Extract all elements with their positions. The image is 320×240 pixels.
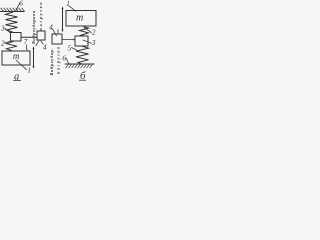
spring 7 (lower spring, left figure) xyxy=(7,41,18,51)
arrow box C to box E xyxy=(62,39,74,41)
mass m rectangle (right figure) xyxy=(66,11,96,27)
box B (striker box, left figure) xyxy=(37,31,45,40)
leader 2 xyxy=(5,41,11,43)
leader 6 xyxy=(66,58,69,64)
double arrow (left figure) xyxy=(33,49,35,67)
svg-text:4: 4 xyxy=(49,24,53,32)
leader 3 xyxy=(5,28,11,33)
svg-text:4: 4 xyxy=(43,44,47,52)
leader 5 xyxy=(72,48,77,51)
ground (right figure) xyxy=(65,63,94,65)
ceiling hatch xyxy=(1,8,25,11)
ground hatch xyxy=(66,64,93,68)
box A (left figure small box) xyxy=(11,33,22,42)
leader 4 (left figure) xyxy=(41,41,44,44)
svg-text:m: m xyxy=(13,51,20,61)
label 1 leader (right figure) xyxy=(69,6,76,12)
double arrow (right figure) xyxy=(62,8,64,30)
spring 5 (lower spring, right figure) xyxy=(76,46,89,64)
impact arrow from box B xyxy=(36,41,39,46)
leader 3 (right figure) xyxy=(83,40,92,43)
leader 2 (right figure) xyxy=(84,28,92,33)
wire box A to box B xyxy=(21,36,37,38)
svg-text:6: 6 xyxy=(19,0,23,7)
svg-text:7: 7 xyxy=(24,38,28,46)
svg-text:Виброудар.: Виброудар. xyxy=(49,49,54,77)
svg-text:2: 2 xyxy=(1,40,5,48)
mass m rectangle (left figure) xyxy=(2,51,30,65)
svg-text:3: 3 xyxy=(0,24,5,32)
ceiling (left figure) xyxy=(0,11,24,13)
prong above box C xyxy=(57,30,59,35)
box E (right figure lower box) xyxy=(75,36,88,46)
svg-text:1: 1 xyxy=(27,66,31,74)
leader-arrow 7 xyxy=(25,45,28,50)
leader to label 6 xyxy=(16,3,20,11)
spring 5 (upper spring, left figure) xyxy=(6,12,18,32)
svg-text:Виброударная: Виброударная xyxy=(31,10,36,45)
spring 2 (upper spring, right figure) xyxy=(80,27,89,36)
svg-text:m: m xyxy=(76,12,83,23)
svg-text:6: 6 xyxy=(62,55,66,63)
svg-text:1: 1 xyxy=(66,0,70,8)
box C (exciter, right figure) xyxy=(52,34,62,44)
leader 4 (right figure) xyxy=(53,29,57,36)
svg-text:5: 5 xyxy=(68,44,72,52)
leader 1 (left figure) xyxy=(16,60,27,70)
svg-text:3: 3 xyxy=(91,39,96,47)
svg-text:2: 2 xyxy=(92,29,96,37)
